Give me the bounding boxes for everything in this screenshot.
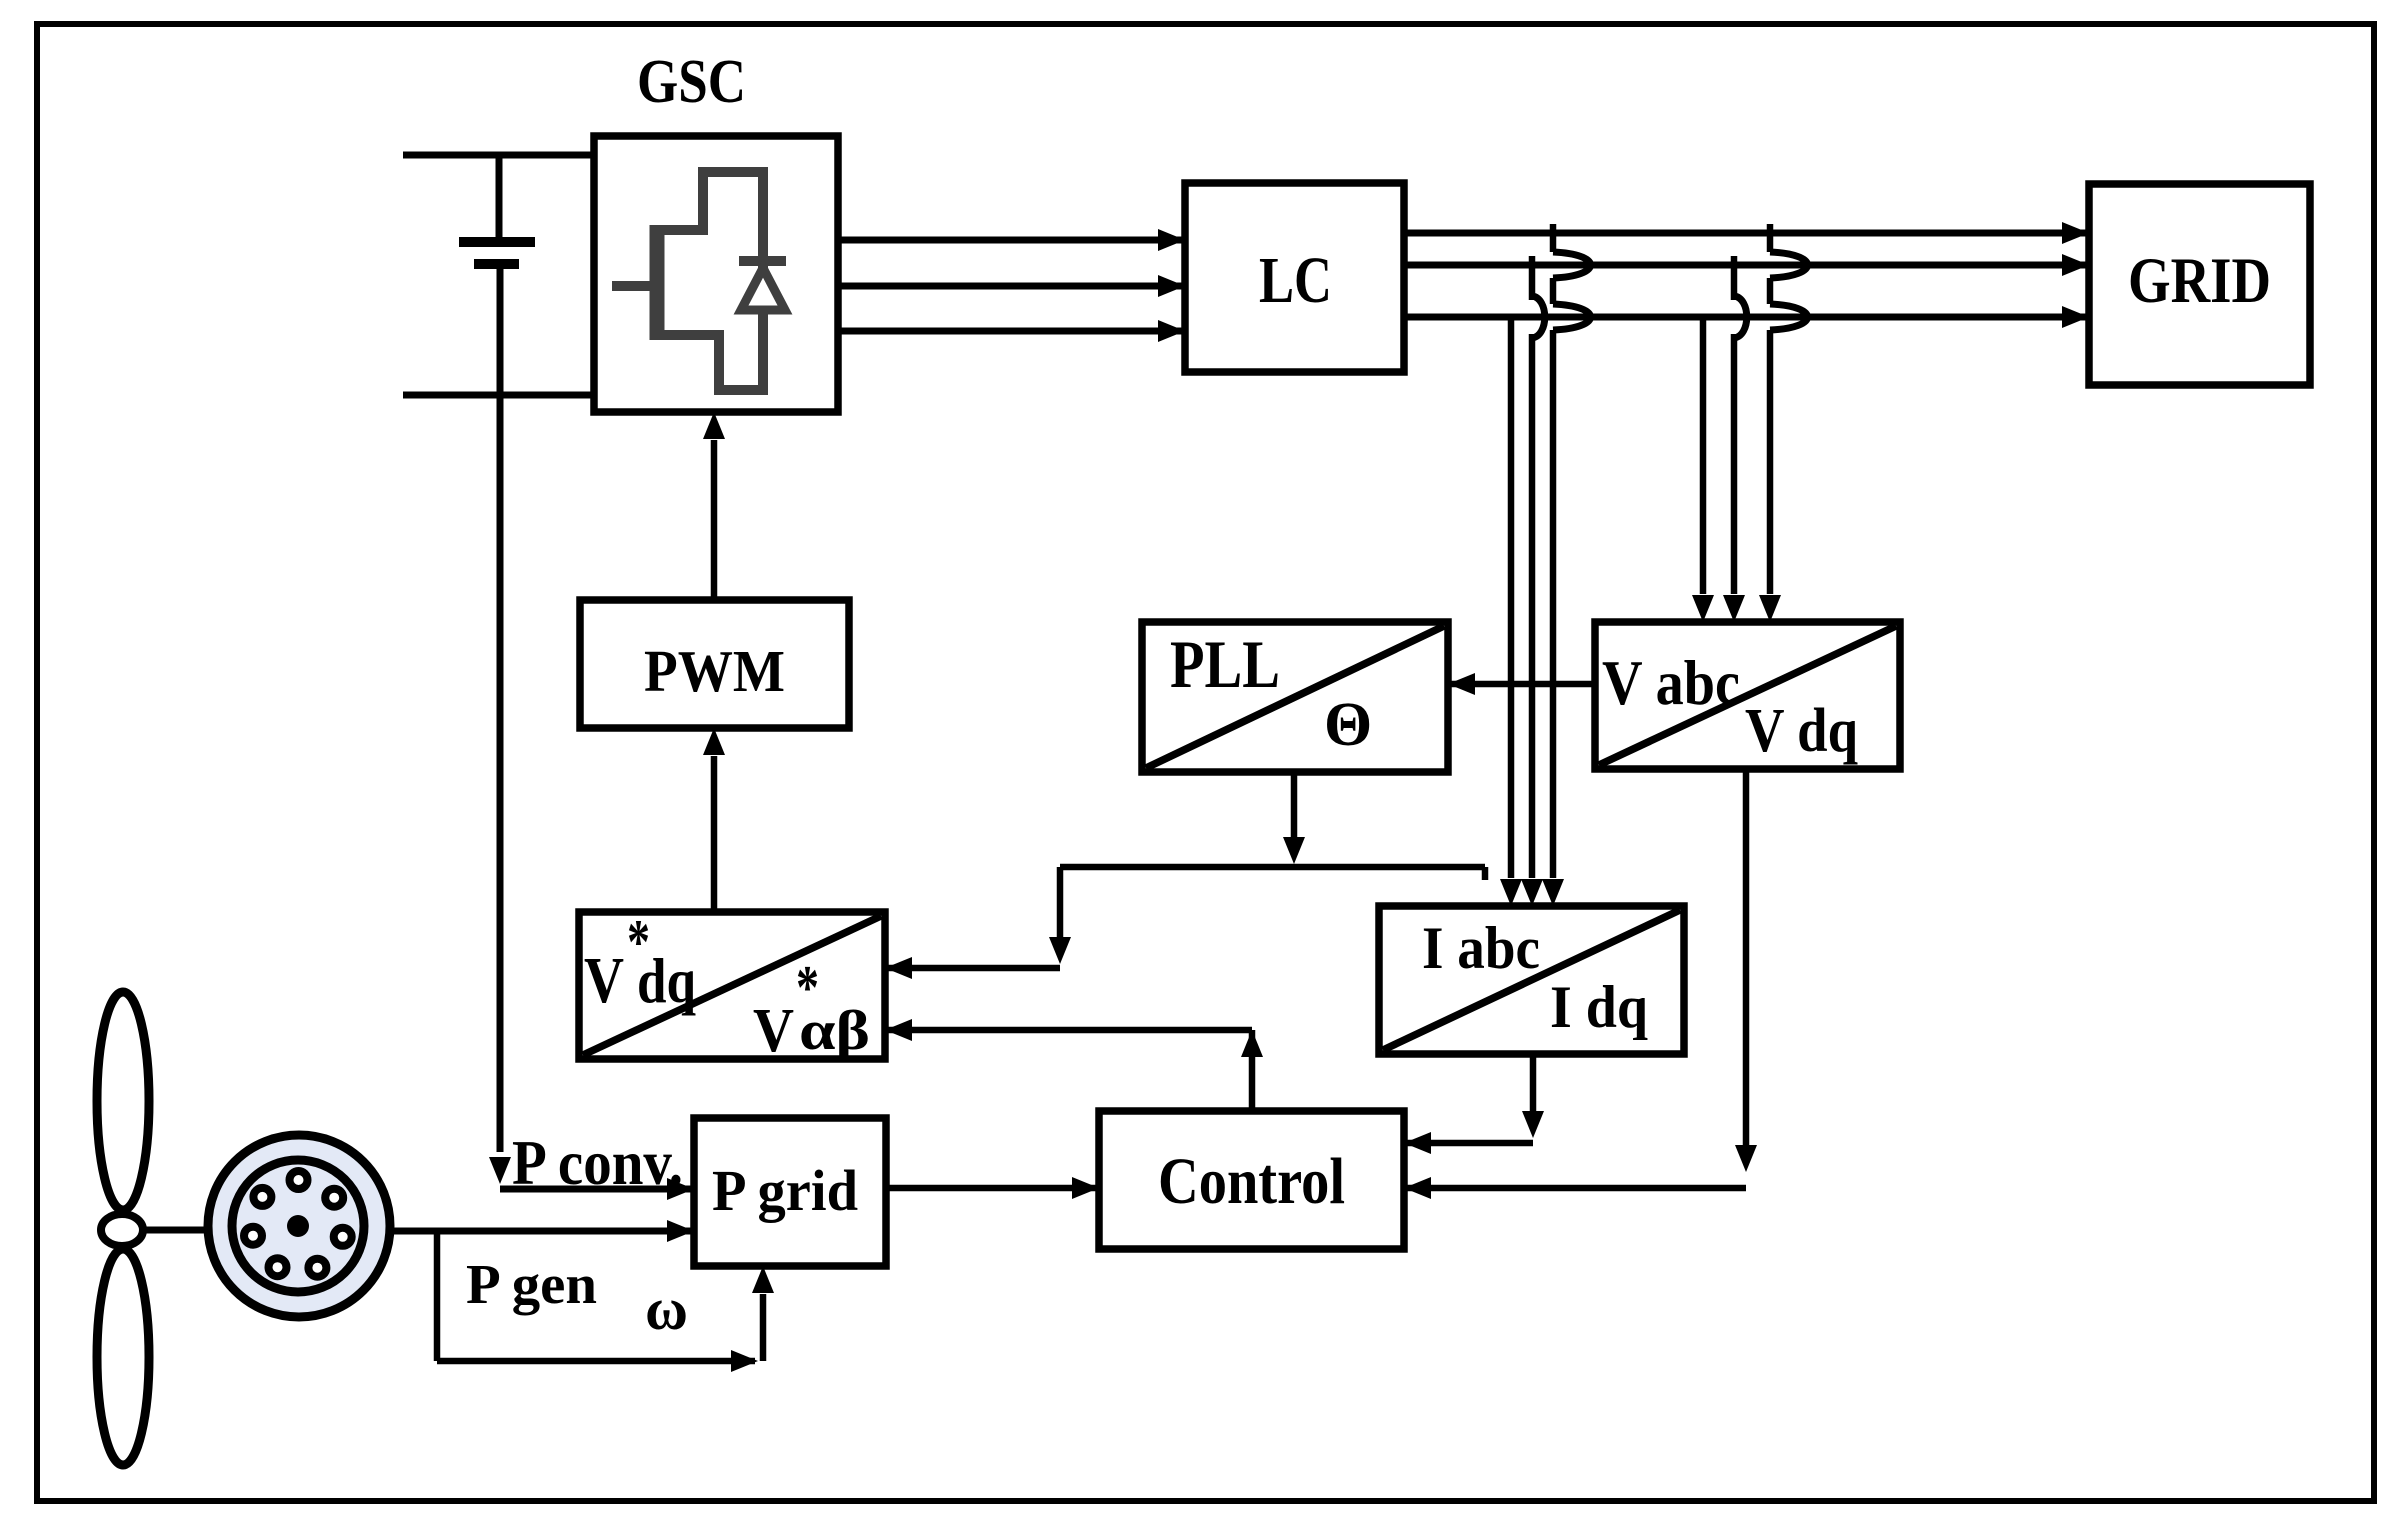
svg-text:I abc: I abc xyxy=(1422,915,1540,981)
svg-text:GRID: GRID xyxy=(2128,245,2271,317)
svg-text:ω: ω xyxy=(645,1276,688,1342)
svg-text:V abc: V abc xyxy=(1602,648,1740,718)
svg-text:I dq: I dq xyxy=(1550,974,1648,1040)
svg-text:V: V xyxy=(584,944,624,1017)
svg-text:αβ: αβ xyxy=(799,1000,870,1062)
svg-text:V: V xyxy=(753,997,794,1065)
svg-text:Θ: Θ xyxy=(1324,691,1372,759)
svg-text:P gen: P gen xyxy=(466,1254,597,1316)
svg-text:GSC: GSC xyxy=(637,48,746,116)
svg-text:dq: dq xyxy=(637,945,696,1016)
svg-text:Control: Control xyxy=(1158,1145,1345,1218)
svg-text:PWM: PWM xyxy=(644,638,785,704)
svg-text:P conv.: P conv. xyxy=(512,1128,683,1198)
svg-text:P grid: P grid xyxy=(712,1158,858,1223)
svg-text:V dq: V dq xyxy=(1745,697,1858,765)
svg-text:PLL: PLL xyxy=(1170,626,1280,702)
svg-text:LC: LC xyxy=(1259,244,1332,317)
